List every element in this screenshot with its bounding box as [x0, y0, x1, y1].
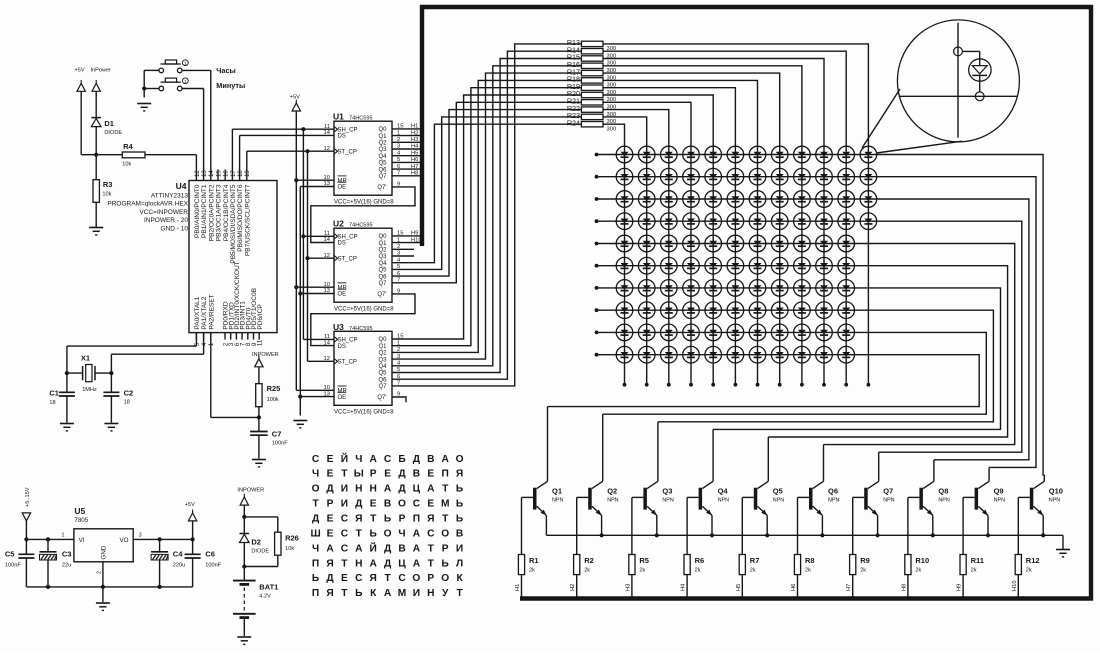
svg-text:GND: GND: [101, 545, 108, 559]
svg-text:INPOWER - 20: INPOWER - 20: [144, 217, 188, 224]
svg-text:1: 1: [61, 533, 64, 539]
svg-text:R7: R7: [750, 556, 760, 565]
svg-text:22u: 22u: [62, 562, 71, 568]
svg-text:С: С: [341, 514, 349, 525]
svg-text:Ь: Ь: [355, 588, 362, 599]
svg-text:Л: Л: [456, 558, 463, 569]
svg-text:11: 11: [324, 124, 330, 130]
svg-text:Ш: Ш: [310, 529, 320, 540]
svg-text:NPN: NPN: [773, 498, 784, 504]
svg-text:Ь: Ь: [384, 514, 391, 525]
svg-text:3: 3: [397, 144, 400, 150]
svg-text:C4: C4: [173, 550, 183, 559]
svg-text:Т: Т: [442, 514, 449, 525]
svg-text:OE: OE: [338, 185, 347, 191]
svg-text:VI: VI: [79, 537, 85, 544]
svg-text:2k: 2k: [860, 568, 866, 574]
svg-text:D2: D2: [251, 538, 261, 547]
svg-text:Ь: Ь: [370, 529, 377, 540]
svg-text:Q4: Q4: [378, 261, 387, 267]
svg-text:PB1/AIN1/PCINT1: PB1/AIN1/PCINT1: [201, 184, 208, 238]
svg-text:Я: Я: [355, 514, 362, 525]
svg-text:2k: 2k: [805, 568, 811, 574]
svg-text:7: 7: [397, 278, 400, 284]
svg-text:Q1: Q1: [552, 486, 562, 495]
svg-text:R9: R9: [860, 556, 870, 565]
svg-text:18: 18: [49, 400, 55, 406]
svg-text:C6: C6: [205, 550, 215, 559]
svg-text:Д: Д: [312, 514, 320, 525]
svg-text:Q6: Q6: [378, 377, 387, 383]
svg-text:17: 17: [230, 170, 237, 177]
svg-text:R1: R1: [529, 556, 539, 565]
svg-text:1: 1: [397, 237, 400, 243]
svg-text:VCC=+5V(16) GND=8: VCC=+5V(16) GND=8: [334, 200, 394, 206]
svg-text:H10: H10: [411, 237, 422, 243]
svg-text:6: 6: [397, 271, 400, 277]
svg-text:16: 16: [223, 170, 230, 177]
svg-text:3: 3: [397, 354, 400, 360]
svg-text:U3: U3: [333, 322, 344, 332]
svg-text:1: 1: [397, 130, 400, 136]
svg-text:С: С: [427, 529, 435, 540]
svg-text:2k: 2k: [915, 568, 921, 574]
svg-text:GND - 10: GND - 10: [161, 226, 189, 233]
svg-text:Р: Р: [399, 514, 406, 525]
svg-text:В: В: [398, 543, 405, 554]
svg-text:NPN: NPN: [718, 498, 729, 504]
svg-text:14: 14: [208, 170, 215, 177]
svg-text:6: 6: [397, 374, 400, 380]
svg-text:2k: 2k: [750, 568, 756, 574]
svg-text:H4: H4: [681, 583, 687, 591]
svg-text:SH_CP: SH_CP: [338, 128, 358, 134]
svg-text:1: 1: [397, 340, 400, 346]
svg-text:Е: Е: [327, 454, 334, 465]
svg-text:100nF: 100nF: [5, 562, 21, 568]
svg-text:А: А: [384, 484, 392, 495]
svg-text:ST_CP: ST_CP: [338, 360, 357, 366]
svg-text:DS: DS: [338, 344, 346, 350]
svg-text:С: С: [384, 454, 392, 465]
svg-text:К: К: [370, 588, 377, 599]
svg-text:Я: Я: [456, 469, 463, 480]
svg-text:Q7: Q7: [378, 281, 387, 287]
svg-text:H9: H9: [411, 231, 418, 237]
svg-text:12: 12: [194, 170, 201, 177]
svg-text:DIODE: DIODE: [251, 549, 269, 555]
svg-text:О: О: [441, 529, 449, 540]
svg-text:C3: C3: [62, 550, 72, 559]
svg-text:74HC595: 74HC595: [349, 223, 373, 229]
svg-text:Ч: Ч: [398, 529, 405, 540]
svg-text:H8: H8: [411, 171, 418, 177]
svg-text:Q0: Q0: [378, 127, 387, 133]
svg-text:InPower: InPower: [91, 68, 112, 74]
svg-text:Q2: Q2: [378, 141, 387, 147]
svg-text:VO: VO: [120, 537, 129, 544]
svg-text:PA0/XTAL1: PA0/XTAL1: [194, 296, 201, 329]
svg-text:14: 14: [324, 130, 331, 136]
svg-text:О: О: [312, 484, 320, 495]
svg-text:H8: H8: [901, 584, 907, 591]
svg-text:М: М: [398, 588, 407, 599]
svg-text:ATTINY2313: ATTINY2313: [151, 192, 188, 199]
svg-text:О: О: [384, 529, 392, 540]
svg-text:R2: R2: [584, 556, 594, 565]
svg-text:H4: H4: [411, 144, 419, 150]
svg-text:PB2/OC0A/PCINT2: PB2/OC0A/PCINT2: [208, 184, 215, 241]
svg-text:Часы: Часы: [216, 66, 235, 75]
svg-text:H2: H2: [411, 130, 418, 136]
svg-text:Q6: Q6: [828, 486, 838, 495]
svg-text:10k: 10k: [285, 546, 294, 552]
svg-text:3: 3: [397, 251, 400, 257]
svg-text:Й: Й: [341, 452, 348, 465]
svg-text:R8: R8: [805, 556, 815, 565]
svg-text:Q7: Q7: [883, 486, 893, 495]
svg-text:C7: C7: [272, 430, 282, 439]
svg-text:H3: H3: [411, 137, 418, 143]
svg-text:H6: H6: [791, 584, 797, 591]
svg-text:X1: X1: [81, 353, 90, 362]
svg-text:Ь: Ь: [312, 573, 319, 584]
svg-text:12: 12: [324, 146, 330, 152]
svg-text:H9: H9: [957, 584, 963, 591]
svg-text:R4: R4: [123, 142, 133, 151]
svg-text:М: М: [441, 499, 450, 510]
svg-text:2: 2: [97, 571, 103, 574]
svg-text:MR: MR: [338, 389, 348, 395]
svg-text:Q4: Q4: [718, 486, 729, 495]
svg-text:Т: Т: [341, 469, 348, 480]
svg-text:R26: R26: [285, 534, 299, 543]
svg-text:Е: Е: [427, 469, 434, 480]
svg-text:Д: Д: [384, 558, 392, 569]
svg-text:Д: Д: [384, 543, 392, 554]
svg-text:H5: H5: [411, 150, 418, 156]
svg-text:Я: Я: [370, 573, 377, 584]
svg-text:100nF: 100nF: [205, 562, 221, 568]
svg-text:R5: R5: [639, 556, 649, 565]
svg-text:Е: Е: [327, 514, 334, 525]
svg-text:R11: R11: [971, 556, 984, 565]
svg-text:PB0/AIN0/PCINT0: PB0/AIN0/PCINT0: [194, 184, 201, 238]
svg-text:H5: H5: [736, 584, 742, 591]
svg-text:Q0: Q0: [378, 337, 387, 343]
svg-text:Р: Р: [370, 469, 377, 480]
svg-text:NPN: NPN: [883, 498, 894, 504]
svg-text:Р: Р: [327, 499, 334, 510]
svg-text:Q2: Q2: [607, 486, 617, 495]
svg-text:Ь: Ь: [456, 514, 463, 525]
svg-text:Д: Д: [398, 484, 406, 495]
svg-text:13: 13: [201, 170, 208, 177]
svg-text:С: С: [355, 573, 363, 584]
svg-text:+5..15V: +5..15V: [25, 487, 31, 507]
svg-text:Q5: Q5: [773, 486, 783, 495]
svg-text:R10: R10: [915, 556, 929, 565]
svg-text:220u: 220u: [173, 562, 185, 568]
svg-text:9: 9: [397, 392, 400, 398]
svg-text:А: А: [442, 454, 450, 465]
svg-text:Т: Т: [341, 588, 348, 599]
svg-text:Д: Д: [326, 484, 334, 495]
svg-text:DS: DS: [338, 241, 346, 247]
svg-text:А: А: [413, 529, 421, 540]
svg-text:NPN: NPN: [938, 498, 949, 504]
svg-text:C2: C2: [124, 389, 134, 398]
svg-text:У: У: [442, 588, 449, 599]
svg-text:MR: MR: [338, 178, 348, 184]
svg-text:Q3: Q3: [378, 254, 387, 260]
svg-text:Ь: Ь: [442, 558, 449, 569]
svg-text:1MHz: 1MHz: [82, 387, 97, 393]
svg-text:H3: H3: [625, 584, 631, 591]
svg-text:H7: H7: [846, 584, 852, 591]
svg-text:NPN: NPN: [552, 498, 563, 504]
svg-text:U1: U1: [333, 112, 344, 122]
svg-text:Q10: Q10: [1049, 486, 1063, 495]
svg-text:П: П: [312, 588, 319, 599]
svg-text:18: 18: [124, 400, 130, 406]
svg-text:Ы: Ы: [354, 469, 364, 480]
svg-text:U2: U2: [333, 219, 344, 229]
svg-text:Ч: Ч: [312, 543, 319, 554]
svg-text:Q5: Q5: [378, 371, 387, 377]
svg-text:5: 5: [397, 264, 400, 270]
svg-text:PA1/XTAL2: PA1/XTAL2: [201, 296, 208, 329]
svg-text:7: 7: [397, 381, 400, 387]
svg-text:11: 11: [257, 339, 264, 346]
svg-text:Q7': Q7': [377, 185, 386, 191]
svg-text:+5V: +5V: [185, 502, 195, 508]
svg-text:PD6/ICP: PD6/ICP: [257, 304, 264, 329]
svg-text:О: О: [412, 573, 420, 584]
svg-text:Q3: Q3: [378, 357, 387, 363]
svg-text:Т: Т: [312, 499, 319, 510]
svg-text:PB6/MISO/DO/PCINT6: PB6/MISO/DO/PCINT6: [237, 184, 244, 252]
svg-text:BAT1: BAT1: [259, 583, 278, 592]
svg-text:Q4: Q4: [378, 364, 387, 370]
svg-text:2k: 2k: [529, 568, 535, 574]
svg-text:H7: H7: [411, 164, 418, 170]
svg-text:+5V: +5V: [75, 68, 85, 74]
svg-text:В: В: [413, 469, 420, 480]
svg-text:15: 15: [397, 334, 403, 340]
svg-text:Q3: Q3: [378, 147, 387, 153]
svg-text:Ц: Ц: [398, 558, 406, 569]
svg-text:DIODE: DIODE: [104, 130, 122, 136]
svg-text:ST_CP: ST_CP: [338, 256, 357, 262]
svg-text:VCC=+5V(16) GND=8: VCC=+5V(16) GND=8: [334, 307, 394, 313]
svg-text:Q2: Q2: [378, 351, 387, 357]
svg-text:300: 300: [607, 126, 617, 132]
svg-text:R12: R12: [1026, 556, 1040, 565]
svg-text:Q1: Q1: [378, 241, 387, 247]
svg-text:U4: U4: [176, 181, 187, 191]
svg-text:О: О: [441, 573, 449, 584]
svg-text:H6: H6: [411, 157, 418, 163]
svg-text:Ь: Ь: [456, 499, 463, 510]
svg-text:15: 15: [397, 231, 403, 237]
svg-text:Q7: Q7: [378, 384, 387, 390]
svg-text:15: 15: [397, 124, 403, 130]
svg-text:Q9: Q9: [994, 486, 1004, 495]
svg-text:2k: 2k: [971, 568, 977, 574]
svg-text:Ь: Ь: [456, 484, 463, 495]
svg-text:D1: D1: [104, 119, 114, 128]
svg-text:Q3: Q3: [662, 486, 672, 495]
svg-text:VCC=+5V(16) GND=8: VCC=+5V(16) GND=8: [334, 410, 394, 416]
svg-text:NPN: NPN: [662, 498, 673, 504]
svg-text:5: 5: [397, 367, 400, 373]
svg-text:Р: Р: [427, 573, 434, 584]
svg-text:Р: Р: [442, 543, 449, 554]
svg-text:Q5: Q5: [378, 268, 387, 274]
svg-text:9: 9: [397, 182, 400, 188]
svg-text:2k: 2k: [584, 568, 590, 574]
svg-text:С: С: [398, 573, 406, 584]
svg-text:9: 9: [397, 289, 400, 295]
svg-text:А: А: [370, 558, 378, 569]
svg-text:Д: Д: [413, 454, 421, 465]
svg-text:Д: Д: [355, 499, 363, 510]
svg-text:DS: DS: [338, 134, 346, 140]
svg-text:2: 2: [397, 347, 400, 353]
svg-text:Ц: Ц: [413, 484, 421, 495]
svg-text:П: П: [312, 558, 319, 569]
svg-text:И: И: [341, 484, 348, 495]
svg-text:В: В: [384, 499, 391, 510]
svg-text:Т: Т: [341, 558, 348, 569]
svg-text:H1: H1: [411, 124, 418, 130]
svg-text:Т: Т: [442, 484, 449, 495]
svg-text:ST_CP: ST_CP: [338, 149, 357, 155]
svg-text:Н: Н: [355, 558, 362, 569]
svg-text:А: А: [355, 543, 363, 554]
svg-text:Т: Т: [456, 588, 463, 599]
svg-text:С: С: [312, 454, 320, 465]
svg-text:И: И: [413, 588, 420, 599]
svg-text:Й: Й: [370, 541, 377, 554]
svg-text:2k: 2k: [695, 568, 701, 574]
svg-text:C1: C1: [49, 389, 59, 398]
svg-text:VCC=INPOWER: VCC=INPOWER: [139, 209, 188, 216]
svg-text:О: О: [456, 454, 464, 465]
svg-text:В: В: [427, 454, 434, 465]
svg-text:NPN: NPN: [994, 498, 1005, 504]
svg-text:5: 5: [397, 157, 400, 163]
svg-text:18: 18: [237, 170, 244, 177]
svg-text:74HC595: 74HC595: [349, 116, 373, 122]
svg-text:Я: Я: [326, 588, 333, 599]
svg-text:А: А: [413, 543, 421, 554]
svg-text:NPN: NPN: [1049, 498, 1060, 504]
svg-text:19: 19: [244, 170, 251, 177]
svg-text:2: 2: [397, 137, 400, 143]
svg-text:А: А: [413, 558, 421, 569]
svg-text:2k: 2k: [1026, 568, 1032, 574]
svg-text:Q4: Q4: [378, 154, 387, 160]
svg-text:PB7/USCK/SCL/PCINT7: PB7/USCK/SCL/PCINT7: [244, 184, 251, 256]
svg-text:NPN: NPN: [828, 498, 839, 504]
svg-text:П: П: [413, 514, 420, 525]
svg-text:Q7': Q7': [377, 395, 386, 401]
svg-text:OE: OE: [338, 395, 347, 401]
svg-text:Минуты: Минуты: [216, 81, 245, 90]
svg-text:Q5: Q5: [378, 161, 387, 167]
svg-text:R24: R24: [567, 118, 580, 127]
svg-text:3: 3: [139, 533, 142, 539]
svg-text:И: И: [456, 543, 463, 554]
svg-text:Т: Т: [428, 558, 435, 569]
svg-text:PB4/OC1B/PCINT4: PB4/OC1B/PCINT4: [223, 184, 230, 241]
svg-text:Q8: Q8: [938, 486, 948, 495]
svg-text:С: С: [413, 499, 421, 510]
svg-text:OE: OE: [338, 292, 347, 298]
svg-text:R3: R3: [103, 180, 113, 189]
svg-text:7: 7: [397, 171, 400, 177]
svg-text:Н: Н: [370, 484, 377, 495]
svg-text:PA2/RESET: PA2/RESET: [208, 294, 215, 329]
svg-text:Q2: Q2: [378, 248, 387, 254]
svg-text:NPN: NPN: [607, 498, 618, 504]
svg-text:Q6: Q6: [378, 167, 387, 173]
svg-text:C5: C5: [5, 550, 15, 559]
svg-text:R6: R6: [695, 556, 705, 565]
svg-text:Б: Б: [398, 454, 405, 465]
svg-text:Ч: Ч: [355, 454, 362, 465]
svg-text:Ч: Ч: [312, 469, 319, 480]
svg-text:К: К: [456, 573, 463, 584]
svg-text:74HC595: 74HC595: [349, 326, 373, 332]
svg-text:А: А: [427, 484, 435, 495]
svg-text:2: 2: [397, 244, 400, 250]
svg-text:4.2V: 4.2V: [259, 593, 271, 599]
svg-text:Е: Е: [327, 469, 334, 480]
svg-text:INPOWER: INPOWER: [237, 488, 264, 494]
svg-text:H2: H2: [570, 584, 576, 591]
svg-text:В: В: [456, 529, 463, 540]
svg-text:MR: MR: [338, 285, 348, 291]
svg-text:Q7': Q7': [377, 292, 386, 298]
svg-text:П: П: [442, 469, 449, 480]
svg-text:Я: Я: [326, 558, 333, 569]
svg-text:Н: Н: [355, 484, 362, 495]
svg-text:10k: 10k: [122, 162, 131, 168]
svg-text:6: 6: [397, 164, 400, 170]
svg-text:И: И: [341, 499, 348, 510]
svg-text:Е: Е: [384, 469, 391, 480]
svg-text:Е: Е: [327, 529, 334, 540]
svg-text:Т: Т: [384, 573, 391, 584]
svg-text:Я: Я: [427, 514, 434, 525]
svg-text:100nF: 100nF: [272, 441, 288, 447]
svg-text:INPOWER: INPOWER: [252, 352, 279, 358]
svg-text:Q1: Q1: [378, 344, 387, 350]
svg-text:О: О: [398, 499, 406, 510]
svg-text:7805: 7805: [74, 517, 88, 524]
svg-text:14: 14: [324, 340, 331, 346]
svg-text:H1: H1: [515, 584, 521, 591]
svg-text:С: С: [341, 543, 349, 554]
svg-text:PROGRAM=qlockAVR.HEX: PROGRAM=qlockAVR.HEX: [107, 201, 188, 208]
svg-text:А: А: [370, 454, 378, 465]
svg-text:Т: Т: [370, 514, 377, 525]
svg-text:Е: Е: [427, 499, 434, 510]
svg-text:+5V: +5V: [290, 94, 300, 100]
